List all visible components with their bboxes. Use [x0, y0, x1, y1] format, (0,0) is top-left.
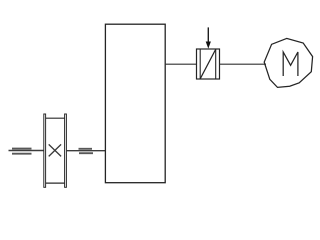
- coupling body top line: [46, 117, 65, 119]
- wire input shaft right segment: [66, 150, 105, 152]
- wire brake to motor: [220, 63, 267, 65]
- coupling / pulley right flange: [65, 114, 67, 187]
- wire input shaft left segment: [9, 150, 44, 152]
- motor letter M: [283, 52, 298, 76]
- coupling / pulley left flange: [44, 114, 46, 187]
- gearbox housing (large rectangle): [105, 24, 165, 183]
- bearing B2 (plain bearing hatches): [79, 149, 94, 153]
- motor M1 (polygonal circle): [264, 38, 312, 87]
- actuation arrow onto brake: [206, 27, 211, 48]
- brake/clutch block (square with diagonal): [197, 49, 220, 79]
- bearing B1 (plain bearing, two hatch lines on input shaft): [12, 149, 32, 154]
- coupling body bottom line: [46, 182, 65, 184]
- wire output shaft to brake: [165, 63, 197, 65]
- coupling X mark: [49, 144, 61, 156]
